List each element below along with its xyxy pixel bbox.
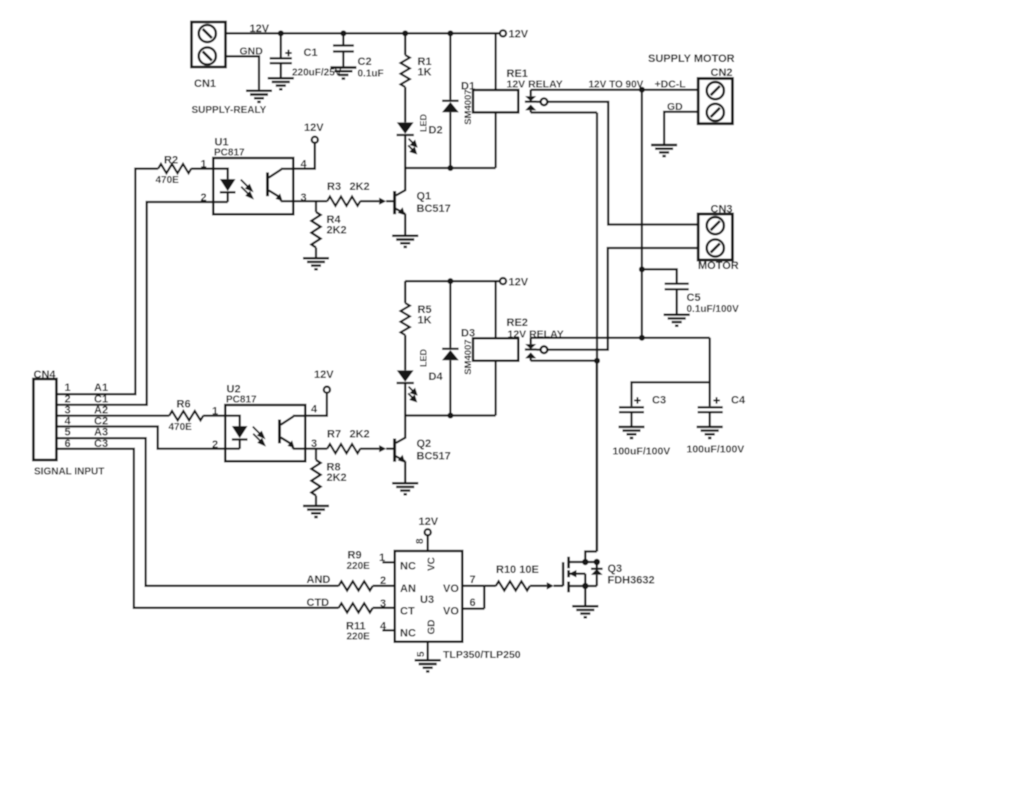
svg-text:2K2: 2K2 xyxy=(327,225,347,237)
svg-text:D3: D3 xyxy=(461,328,475,340)
svg-text:NC: NC xyxy=(400,628,416,640)
svg-text:+DC-L: +DC-L xyxy=(655,79,687,91)
svg-text:2: 2 xyxy=(201,192,207,204)
svg-text:7: 7 xyxy=(470,574,476,586)
svg-text:VO: VO xyxy=(443,583,459,595)
svg-text:LED: LED xyxy=(419,113,429,132)
svg-text:SUPPLY MOTOR: SUPPLY MOTOR xyxy=(648,53,735,65)
svg-text:VO: VO xyxy=(443,606,459,618)
svg-text:2K2: 2K2 xyxy=(350,429,370,441)
svg-text:CN2: CN2 xyxy=(711,67,733,79)
svg-text:BC517: BC517 xyxy=(417,203,451,215)
svg-text:1: 1 xyxy=(201,159,207,171)
svg-text:4: 4 xyxy=(380,621,387,633)
svg-text:12V: 12V xyxy=(419,516,439,528)
svg-text:R2: R2 xyxy=(164,155,178,167)
svg-text:A3: A3 xyxy=(94,427,108,439)
svg-text:100uF/100V: 100uF/100V xyxy=(613,446,671,458)
svg-text:CT: CT xyxy=(400,606,415,618)
svg-text:TLP350/TLP250: TLP350/TLP250 xyxy=(443,649,521,661)
svg-text:12V: 12V xyxy=(314,369,334,381)
svg-text:GD: GD xyxy=(667,101,683,113)
svg-text:BC517: BC517 xyxy=(417,451,451,463)
svg-text:GD: GD xyxy=(427,620,438,635)
svg-text:LED: LED xyxy=(419,348,429,367)
svg-text:R9: R9 xyxy=(348,550,362,562)
svg-text:1: 1 xyxy=(379,552,385,564)
svg-text:12V TO 90V: 12V TO 90V xyxy=(589,80,644,91)
svg-text:6: 6 xyxy=(470,597,476,609)
svg-text:CN1: CN1 xyxy=(194,78,216,90)
svg-text:3: 3 xyxy=(301,192,307,204)
svg-text:U3: U3 xyxy=(420,594,434,606)
svg-text:R3: R3 xyxy=(327,181,341,193)
svg-text:C2: C2 xyxy=(94,415,108,427)
svg-text:C5: C5 xyxy=(687,292,701,304)
svg-text:3: 3 xyxy=(311,438,317,450)
svg-text:470E: 470E xyxy=(169,422,193,433)
svg-text:PC817: PC817 xyxy=(214,148,245,159)
svg-text:Q2: Q2 xyxy=(417,438,432,450)
svg-text:220uF/25V: 220uF/25V xyxy=(292,68,342,79)
svg-text:C3: C3 xyxy=(652,395,666,407)
svg-text:SM4007: SM4007 xyxy=(463,339,474,374)
svg-text:4: 4 xyxy=(301,159,308,171)
svg-text:4: 4 xyxy=(65,415,72,427)
svg-text:5: 5 xyxy=(65,427,71,439)
svg-text:CTD: CTD xyxy=(307,597,330,609)
svg-text:MOTOR: MOTOR xyxy=(698,260,739,272)
svg-text:CN4: CN4 xyxy=(34,369,57,381)
svg-text:2K2: 2K2 xyxy=(327,472,347,484)
svg-text:0.1uF: 0.1uF xyxy=(358,69,384,80)
svg-text:Q3: Q3 xyxy=(608,563,623,575)
svg-text:220E: 220E xyxy=(347,632,371,643)
svg-text:8: 8 xyxy=(415,538,426,544)
svg-text:D2: D2 xyxy=(429,125,443,137)
svg-text:2: 2 xyxy=(380,575,386,587)
svg-text:3: 3 xyxy=(380,598,386,610)
svg-text:C2: C2 xyxy=(358,56,372,68)
svg-text:1K: 1K xyxy=(418,315,432,327)
svg-text:Q1: Q1 xyxy=(417,191,432,203)
svg-text:R6: R6 xyxy=(177,399,191,411)
svg-text:2K2: 2K2 xyxy=(350,181,370,193)
svg-text:VC: VC xyxy=(427,557,438,571)
svg-text:RE2: RE2 xyxy=(507,317,528,329)
svg-text:PC817: PC817 xyxy=(226,395,257,406)
svg-text:SIGNAL INPUT: SIGNAL INPUT xyxy=(34,467,104,478)
svg-text:NC: NC xyxy=(400,561,416,573)
svg-text:R7: R7 xyxy=(327,429,341,441)
svg-text:12V: 12V xyxy=(509,277,529,289)
svg-text:2: 2 xyxy=(212,439,218,451)
svg-text:R10 10E: R10 10E xyxy=(496,564,539,576)
svg-text:12V: 12V xyxy=(509,29,529,41)
svg-text:SUPPLY-REALY: SUPPLY-REALY xyxy=(192,105,267,116)
svg-text:220E: 220E xyxy=(347,561,371,572)
svg-text:5: 5 xyxy=(416,651,427,657)
svg-text:1: 1 xyxy=(212,406,218,418)
svg-text:12V: 12V xyxy=(250,23,270,35)
svg-text:6: 6 xyxy=(65,438,71,450)
svg-text:4: 4 xyxy=(311,404,318,416)
svg-text:12V RELAY: 12V RELAY xyxy=(508,329,564,341)
svg-text:1K: 1K xyxy=(418,67,432,79)
svg-text:100uF/100V: 100uF/100V xyxy=(687,444,745,456)
svg-text:SM4007: SM4007 xyxy=(463,89,474,124)
svg-text:12V RELAY: 12V RELAY xyxy=(507,79,563,91)
svg-text:12V: 12V xyxy=(304,122,324,134)
svg-text:GND: GND xyxy=(240,46,264,58)
svg-text:AND: AND xyxy=(307,574,331,586)
svg-text:D4: D4 xyxy=(429,371,444,383)
svg-text:C1: C1 xyxy=(304,47,318,59)
svg-text:AN: AN xyxy=(400,583,416,595)
svg-text:0.1uF/100V: 0.1uF/100V xyxy=(687,304,740,315)
svg-text:FDH3632: FDH3632 xyxy=(608,575,655,587)
svg-text:CN3: CN3 xyxy=(711,204,733,216)
svg-text:470E: 470E xyxy=(156,175,180,186)
svg-text:C4: C4 xyxy=(731,395,746,407)
svg-text:C3: C3 xyxy=(94,438,108,450)
